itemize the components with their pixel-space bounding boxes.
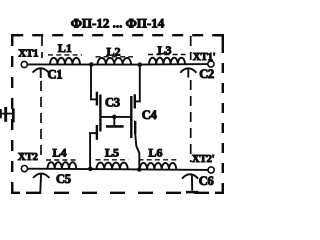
- wire node B' up (bent lead): [135, 134, 139, 170]
- node A' junction (L4-L5): [88, 167, 93, 172]
- terminal pin XT1: [21, 61, 27, 67]
- node centre junction: [112, 115, 117, 120]
- node A junction (L1-L2): [89, 62, 94, 67]
- svg-text:L5: L5: [105, 145, 119, 159]
- svg-text:L6: L6: [148, 145, 162, 159]
- svg-text:C1: C1: [48, 68, 63, 82]
- svg-text:C4: C4: [142, 108, 158, 122]
- shield box bottom: [26, 192, 223, 194]
- wire node A down: [90, 65, 92, 100]
- bottom-right capacitor outer plate: [134, 121, 136, 134]
- terminal pin XT2: [21, 166, 27, 172]
- inductor L6: [140, 163, 177, 170]
- wire stub to C3: [90, 98, 96, 100]
- svg-text:XT1: XT1: [18, 48, 38, 60]
- node B junction (L2-L3): [138, 62, 143, 67]
- inductor L3: [149, 58, 185, 65]
- bottom-left capacitor outer plate: [96, 125, 98, 140]
- L3 tuning core (dashed): [148, 54, 186, 56]
- svg-text:L3: L3: [157, 43, 171, 57]
- svg-text:L4: L4: [52, 145, 66, 159]
- capacitor C4 outer plate: [134, 94, 136, 108]
- terminal pin XT2': [208, 167, 214, 173]
- capacitor C2 (to case): [180, 68, 196, 77]
- shield box right: [222, 35, 224, 193]
- svg-text:C3: C3: [105, 95, 120, 109]
- capacitor C1 (to case): [33, 68, 49, 78]
- svg-text:C6: C6: [199, 174, 214, 188]
- wire node A' up: [89, 132, 91, 169]
- inductor L1: [50, 58, 80, 65]
- inductor L4: [48, 162, 77, 169]
- wire centre link: [100, 116, 132, 118]
- connector XT1/XT2 dashed boundary (left, lower): [40, 81, 42, 160]
- inductor L5: [97, 163, 128, 170]
- capacitor C6 (to case): [182, 174, 198, 192]
- connector XT1'/XT2' dashed boundary (right, lower): [190, 80, 192, 162]
- svg-text:XT1': XT1': [193, 51, 216, 63]
- wire stub to bottom-left capacitor: [89, 132, 96, 134]
- capacitor C4 inner plate (runs across centre wire): [130, 96, 132, 138]
- shield box left: [11, 35, 13, 193]
- L6 tuning core (dashed): [139, 159, 178, 161]
- svg-text:ФП-12 ... ФП-14: ФП-12 ... ФП-14: [71, 16, 165, 31]
- capacitor C3 outer plate: [96, 92, 98, 106]
- svg-text:XT2': XT2': [192, 153, 215, 165]
- connector XT1/XT2 dashed boundary (left, upper): [41, 36, 43, 58]
- ground (shield earth on left border): [0, 107, 14, 122]
- L4 tuning core (dashed): [46, 159, 78, 161]
- wire node B down: [139, 65, 141, 102]
- svg-text:C5: C5: [56, 172, 71, 186]
- wire bottom rail: [28, 169, 208, 170]
- L5 tuning core (dashed): [96, 159, 129, 161]
- shield box corner stubs: [11, 34, 224, 194]
- node B' junction (L5-L6): [137, 167, 142, 172]
- svg-text:L2: L2: [106, 45, 120, 59]
- inductor L2: [98, 58, 132, 65]
- capacitor C5 (to case): [33, 174, 49, 194]
- L1 tuning core (dashed): [48, 54, 82, 56]
- svg-text:L1: L1: [58, 41, 72, 55]
- connector XT1'/XT2' dashed boundary (right, upper): [190, 36, 192, 60]
- wire top rail: [28, 63, 208, 66]
- svg-text:C2: C2: [199, 67, 214, 81]
- svg-text:XT2: XT2: [18, 151, 39, 163]
- terminal pin XT1': [208, 61, 214, 67]
- ground (centre chassis stub): [106, 117, 124, 127]
- capacitor C3 inner plate (runs to centre wire): [99, 95, 101, 132]
- wire stub to C4: [135, 100, 141, 102]
- shield box (outer dashed border) top: [12, 34, 223, 36]
- L2 tuning core (dashed): [96, 56, 134, 58]
